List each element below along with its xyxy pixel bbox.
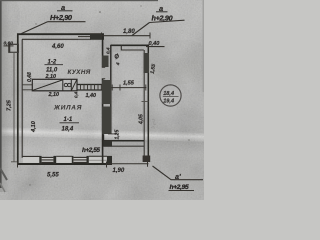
svg-text:1-1: 1-1 (64, 117, 73, 123)
underline a left (57, 10, 73, 12)
stove divider 1 (62, 79, 64, 91)
tick end of central wall (108, 133, 117, 135)
paper mottle dark (0, 0, 204, 200)
scan edge left (0, 0, 2, 188)
svg-text:h+2,90: h+2,90 (152, 14, 173, 23)
svg-text:1-2: 1-2 (48, 60, 57, 66)
dim ticks 1,40 (81, 84, 102, 91)
crease fold band (0, 119, 210, 155)
white window 1 (56, 155, 72, 157)
right side shading patches (148, 40, 216, 84)
chimney projection (9, 44, 18, 52)
svg-text:4,60: 4,60 (51, 44, 64, 50)
room interior lighter (24, 41, 101, 83)
veranda right wall dark fill (144, 53, 149, 73)
veranda top wall inner (122, 49, 144, 51)
svg-text:4,10: 4,10 (31, 120, 37, 133)
stove small diagonal (72, 80, 77, 90)
svg-text:2,10: 2,10 (48, 92, 60, 98)
window jamb 3 (72, 156, 74, 164)
svg-text:а': а' (175, 172, 181, 181)
door jamb veranda top (120, 45, 122, 50)
svg-text:4,05: 4,05 (139, 114, 145, 125)
paper mottle light (0, 0, 204, 200)
scan smudge bottom-left (0, 168, 7, 180)
leader to h+2,90 right (132, 23, 150, 36)
left dimension line 7,25 (13, 53, 15, 163)
svg-text:2,10: 2,10 (45, 74, 57, 80)
svg-text:0,40: 0,40 (149, 41, 161, 47)
pier bottom wall right dark (107, 156, 112, 164)
window in top wall (78, 36, 91, 38)
lined window 2 (73, 157, 86, 162)
left wall outer line (17, 34, 19, 165)
stamp middle bar (163, 95, 179, 97)
veranda top wall outer (111, 44, 149, 46)
svg-text:0,4: 0,4 (106, 47, 111, 54)
dim line 1,55 veranda (112, 87, 147, 89)
underline h+2,95 (169, 190, 195, 192)
tick on right wall (142, 101, 149, 103)
window jamb 1 (39, 156, 41, 164)
svg-text:5,55: 5,55 (47, 173, 59, 179)
scan edge right faint (203, 0, 204, 92)
main top wall outer line (17, 33, 104, 35)
specks (99, 11, 101, 13)
central wall dark fill lower (102, 80, 112, 104)
svg-text:18,4: 18,4 (163, 91, 175, 97)
paper background (0, 0, 204, 200)
veranda bottom wall left blob (104, 140, 113, 146)
svg-text:0,4: 0,4 (74, 91, 79, 98)
left edge shading (0, 0, 10, 192)
window jamb 2 (53, 156, 56, 164)
bleedthrough marks (151, 119, 156, 129)
stamp circle (160, 85, 181, 106)
bottom wall outer line (17, 163, 112, 165)
paper grain dark (0, 0, 204, 200)
svg-text:19,4: 19,4 (163, 98, 175, 104)
right wall bottom blob (143, 156, 151, 163)
partition wall kitchen/living (77, 84, 102, 86)
svg-text:а: а (159, 4, 163, 13)
door jambs central wall (102, 67, 105, 78)
central wall left line (102, 34, 104, 68)
window jamb 4 (87, 156, 89, 164)
left wall inner line (21, 39, 23, 158)
partition stub left of stove (23, 85, 33, 90)
svg-text:1,90: 1,90 (113, 168, 125, 174)
central wall dark fill upper (102, 56, 109, 68)
svg-text:Н+2,90: Н+2,90 (50, 13, 73, 22)
svg-text:1,40: 1,40 (86, 93, 97, 99)
dim line 1,90 (108, 163, 149, 165)
pier top wall right dark (90, 34, 104, 40)
stove hotplates (64, 83, 67, 86)
svg-text:а: а (61, 3, 65, 12)
lined window 1 (42, 157, 54, 162)
svg-text:0,60: 0,60 (4, 41, 14, 47)
leader to h+2,95 (153, 166, 204, 180)
svg-text:0,48: 0,48 (27, 72, 33, 82)
svg-text:ЖИЛАЯ: ЖИЛАЯ (53, 105, 82, 112)
svg-text:1,80: 1,80 (123, 29, 135, 35)
fraction bar 1-1 (60, 122, 80, 124)
svg-text:7,25: 7,25 (7, 99, 13, 111)
veranda right wall outer (147, 45, 149, 161)
paper grain light (0, 0, 204, 200)
stove outline (32, 79, 77, 91)
svg-text:1,25: 1,25 (115, 130, 121, 140)
svg-text:18,4: 18,4 (62, 127, 74, 133)
stove divider 2 (70, 79, 72, 91)
underline a right (156, 11, 168, 13)
bottom wall white band (23, 157, 107, 163)
veranda bottom wall (104, 140, 145, 142)
fraction bar 1-2 (45, 64, 64, 66)
veranda right wall inner (143, 50, 145, 160)
white window 2 (89, 155, 107, 157)
svg-text:1,55: 1,55 (123, 81, 135, 87)
svg-text:h+2,55: h+2,55 (82, 147, 100, 154)
scan edge top (0, 0, 158, 1)
main top wall inner line (22, 38, 78, 40)
bottom wall inner line (22, 155, 40, 157)
dim line 1,80 (101, 35, 151, 37)
underline h+2,90 right (150, 20, 185, 22)
stove diagonal (33, 80, 62, 90)
leader to corner top-left (21, 22, 48, 34)
central wall right line (110, 45, 112, 134)
svg-text:h+2,95: h+2,95 (170, 184, 190, 191)
underline 0,40 right (146, 46, 165, 48)
underline 0,60 line (4, 45, 14, 47)
svg-text:КУХНЯ: КУХНЯ (68, 69, 91, 76)
svg-text:11,0: 11,0 (46, 67, 58, 73)
underline H+2,90 left (48, 21, 86, 23)
dim ticks 5,55 (18, 162, 107, 168)
